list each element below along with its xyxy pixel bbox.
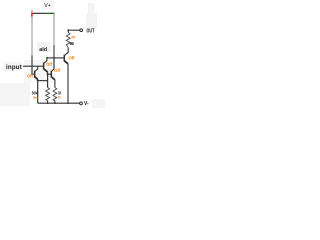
resistor R1 bottom lead (47, 101, 49, 104)
transistor Q0 base drop (32, 66, 35, 74)
artifact shade input (3, 62, 23, 71)
rail red stub dark (31, 13, 33, 16)
wire column junction to Q3 base (54, 57, 64, 59)
input wire (23, 65, 44, 67)
node Q0 emitter junction (37, 79, 39, 81)
transistor Q1 emitter (44, 69, 48, 74)
node Q3 emitter rail (67, 102, 69, 104)
transistor Q1 bar (43, 63, 45, 70)
transistor Q1 collector (44, 58, 47, 63)
svg-text:OUT: OUT (87, 28, 95, 34)
node column junction (53, 57, 55, 59)
wire x54 junction down to T2 collector (53, 58, 55, 69)
green tick on rail (47, 12, 49, 14)
node R1 rail (47, 102, 49, 104)
node OUT junction (67, 29, 69, 31)
svg-text:Off: Off (27, 74, 33, 79)
artifact shade ald (37, 42, 51, 52)
transistor Q1 emitter arrow (44, 69, 48, 72)
transistor Q2 bar (50, 71, 52, 78)
left rail gray (31, 17, 33, 56)
bottom rail (38, 102, 80, 104)
svg-text:50: 50 (58, 95, 61, 100)
wire Q1 emitter down to R1 (47, 74, 49, 87)
transistor Q0 collector (35, 66, 38, 71)
svg-text:Off: Off (46, 62, 52, 67)
left rail dark lower (31, 56, 33, 67)
wire Q0 emitter down to rail (37, 80, 39, 103)
transistor Q3 collector (65, 48, 69, 56)
transistor Q3 emitter (65, 61, 69, 103)
terminal OUT circle (80, 29, 83, 32)
artifact shade center (24, 60, 55, 83)
resistor R2 bottom lead (54, 101, 56, 104)
svg-text:Off: Off (69, 55, 75, 60)
wire OUT (68, 29, 80, 31)
terminal V- circle (80, 102, 83, 105)
transistor Q2 emitter arrow (52, 77, 55, 80)
column V+ x54 gray (53, 14, 55, 46)
column V+ x54 dark lower (53, 45, 55, 58)
svg-text:V+: V+ (44, 3, 51, 9)
artifact shade out band (88, 3, 95, 13)
wire Q1 emitter to Q2 base (48, 73, 52, 75)
artifact shade top (42, 0, 54, 9)
artifact shade bottom-left (0, 83, 30, 106)
resistor R5 top lead (67, 30, 69, 32)
wire Q0 emitter to R1 column (38, 80, 48, 82)
svg-text:V-: V- (84, 101, 89, 107)
top rail (32, 12, 55, 14)
rail red stub light (31, 10, 33, 13)
resistor R5 zigzag (66, 33, 70, 48)
transistor Q0 emitter (35, 77, 38, 80)
transistor Q3 emitter arrow (65, 61, 68, 64)
transistor Q2 collector (52, 69, 55, 71)
transistor Q0 bar (34, 71, 36, 78)
svg-text:Off: Off (54, 68, 60, 73)
svg-text:input: input (6, 64, 22, 71)
background (0, 0, 114, 120)
node Q1 collector green (46, 57, 48, 59)
wire Q1 collector to column junction (47, 57, 54, 59)
transistor Q2 emitter (52, 77, 55, 88)
node R2 rail (54, 102, 56, 104)
resistor R1 zigzag (46, 88, 50, 101)
svg-text:66: 66 (70, 41, 75, 46)
green pixel rail corner (53, 12, 54, 13)
node Q1 emitter junction (47, 73, 49, 75)
svg-text:5n: 5n (33, 95, 38, 100)
transistor Q3 bar (63, 55, 65, 62)
transistor Q0 emitter arrow (35, 77, 38, 80)
svg-text:ald: ald (39, 47, 48, 53)
artifact shade bottom-right of V- (92, 99, 105, 108)
resistor R2 zigzag (53, 88, 57, 101)
